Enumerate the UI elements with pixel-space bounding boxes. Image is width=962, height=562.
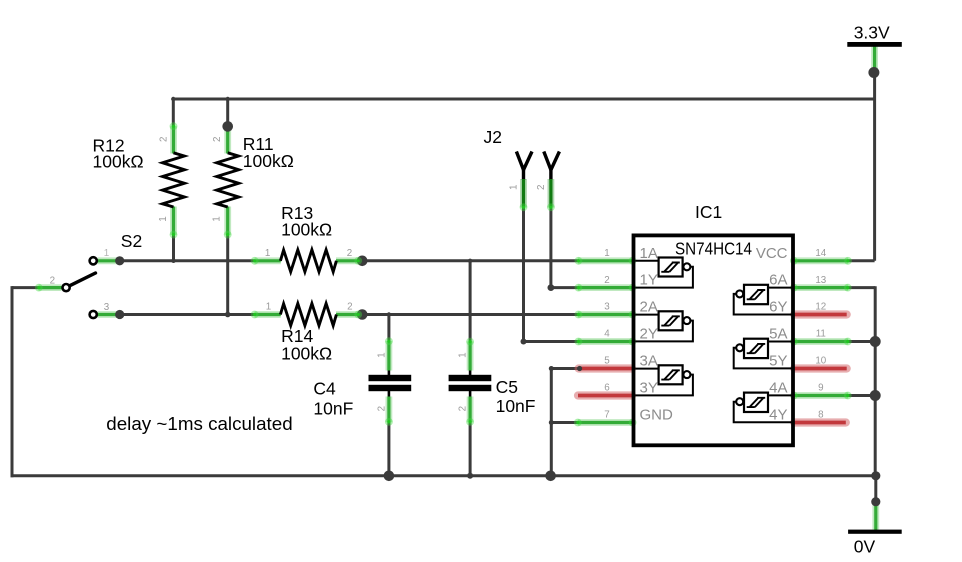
svg-text:4: 4 — [604, 329, 610, 340]
pin glow: C4 pin1 — [385, 337, 393, 345]
pin glow: R12 pin1 — [170, 231, 178, 239]
pin glow: R13 pin1 — [251, 257, 259, 265]
capacitor C4 plates — [369, 375, 412, 391]
wire: GND tie vertical (pins 5,7) — [550, 367, 553, 476]
capacitor C4 pin2 lead stub — [388, 390, 391, 398]
capacitor C5 pin2 lead stub — [469, 390, 472, 398]
wire: S2 pin1 to R13 pin1 (row1) — [120, 259, 255, 262]
connector J2 pin2 leg — [548, 179, 555, 208]
wire: C5 top drop from row1 — [469, 261, 472, 342]
svg-text:1: 1 — [458, 352, 469, 357]
capacitor C5 pin2 leg — [467, 397, 474, 423]
pin glow: IC pin9 — [844, 392, 852, 400]
svg-text:5A: 5A — [769, 326, 787, 343]
svg-text:2: 2 — [212, 137, 223, 142]
switch S2 pin1 leg — [98, 257, 118, 264]
node: 0V symbol junction — [871, 497, 880, 506]
wire: IC pin11 5A stub — [848, 340, 876, 343]
connector J2 pin1 leg — [520, 179, 527, 208]
svg-text:3.3V: 3.3V — [854, 23, 890, 43]
pin glow: R12 pin2 — [170, 122, 178, 130]
wire: J2 pin2 to IC pin2 1Y — [551, 286, 579, 289]
wire: J2 pin1 vertical down — [522, 207, 525, 342]
resistor R12 pin1 leg (bottom) — [170, 207, 177, 235]
resistor R13 pin2 leg — [336, 257, 359, 264]
node: R11 rail tee — [226, 97, 230, 101]
switch S2 pin2 leg — [39, 284, 62, 291]
node: R12 row tee — [171, 259, 175, 263]
svg-text:1: 1 — [604, 248, 609, 259]
svg-text:IC1: IC1 — [695, 202, 722, 222]
svg-text:2: 2 — [347, 248, 352, 259]
svg-text:1Y: 1Y — [640, 272, 658, 289]
switch S2 pin3 terminal circle — [90, 311, 97, 318]
svg-text:10nF: 10nF — [313, 399, 353, 419]
pin glow: R11 pin1 — [224, 231, 232, 239]
IC1 pin 3 2A leg — [578, 311, 632, 318]
svg-text:3: 3 — [604, 302, 610, 313]
IC1 pin 5 3A leg (unrouted red) — [579, 364, 632, 372]
node: C5 drop tee — [468, 259, 472, 263]
node: R13 output junction — [357, 255, 368, 266]
svg-text:3: 3 — [104, 302, 110, 313]
wire: R11 top to rail — [226, 98, 229, 127]
svg-text:0V: 0V — [854, 537, 876, 557]
svg-text:1: 1 — [508, 185, 519, 190]
svg-text:11: 11 — [816, 329, 826, 340]
node: J2 pin2 corner — [548, 284, 555, 291]
svg-text:1: 1 — [266, 302, 271, 313]
IC1 pin 7 GND leg — [578, 419, 632, 426]
pin glow: IC pin11 — [844, 338, 852, 346]
resistor R14 pin1 leg — [255, 311, 281, 318]
wire: J2 pin2 vertical down — [549, 207, 552, 288]
wire: IC pin9 4A stub — [848, 394, 876, 397]
svg-text:13: 13 — [815, 275, 826, 286]
svg-text:100kΩ: 100kΩ — [93, 151, 144, 171]
svg-text:2: 2 — [376, 406, 387, 411]
node: 5A rail junction — [870, 336, 881, 347]
node: S2 pin3 junction — [115, 310, 124, 319]
wire: IC pin13 6A stub — [848, 286, 876, 289]
wire: R13 pin2 to IC pin1 1A — [362, 259, 579, 262]
wire: R12 top to rail — [172, 98, 175, 127]
svg-text:3Y: 3Y — [640, 380, 658, 397]
schmitt inverter gate 2 (2A/2Y) — [635, 311, 693, 341]
node: C5 bottom junction — [467, 473, 473, 479]
svg-text:3A: 3A — [640, 353, 658, 370]
wire: R12 bottom to node row1 — [172, 235, 175, 263]
svg-text:9: 9 — [818, 383, 823, 394]
svg-text:1: 1 — [212, 216, 223, 221]
wire: left vertical down to 0V rail — [11, 286, 14, 477]
IC U1 SN74HC14 body — [634, 235, 794, 445]
pin glow: IC pin13 — [844, 284, 852, 292]
schmitt inverter gate 6 (6A/6Y) — [734, 285, 792, 315]
svg-text:1A: 1A — [640, 245, 658, 262]
pin glow: C5 pin2 — [466, 418, 474, 426]
svg-text:2: 2 — [458, 406, 469, 411]
wire: R11 bottom down to node row3 — [226, 235, 229, 315]
svg-text:delay ~1ms calculated: delay ~1ms calculated — [106, 413, 292, 434]
wire: top 3.3V rail horizontal — [173, 98, 874, 101]
svg-text:GND: GND — [640, 407, 674, 424]
pin glow: C4 pin2 — [385, 418, 393, 426]
node: GND tie top corner — [549, 366, 554, 371]
IC1 pin 6 3Y leg (unrouted red) — [578, 391, 632, 399]
pin glow: S2 pin2 — [35, 284, 43, 292]
svg-text:10: 10 — [815, 356, 826, 367]
wire: 0V symbol vertical — [874, 476, 877, 502]
svg-text:6A: 6A — [769, 272, 787, 289]
IC1 pin 14 VCC leg — [794, 257, 848, 264]
svg-text:1: 1 — [104, 248, 109, 259]
resistor R11 pin2 leg (top) — [224, 127, 231, 154]
schmitt inverter gate 3 (3A/3Y) — [635, 365, 693, 395]
pin glow: IC pin3 — [575, 311, 583, 319]
IC1 pin 11 5A leg — [794, 338, 848, 345]
resistor R12 pin2 leg (top) — [170, 126, 177, 153]
wire: VCC pin14 stub — [848, 259, 874, 262]
svg-text:C4: C4 — [313, 379, 336, 399]
node: R11 row3 junction — [225, 312, 231, 318]
svg-text:7: 7 — [604, 410, 609, 421]
svg-text:12: 12 — [815, 302, 826, 313]
IC1 pin 12 6Y leg (unrouted red) — [794, 310, 847, 318]
capacitor C5 pin1 leg — [467, 341, 474, 370]
node: wire end at pin5 — [577, 366, 582, 371]
svg-text:C5: C5 — [496, 377, 518, 397]
switch S2 pin1 terminal circle — [90, 257, 97, 264]
pin glow: C5 pin1 — [466, 338, 474, 346]
wire: right vertical 6A-5A-4A to 0V rail — [874, 286, 877, 476]
resistor R11 body — [217, 153, 239, 207]
svg-text:100kΩ: 100kΩ — [243, 151, 294, 171]
node: GND tie bottom junction — [545, 471, 556, 482]
node: rail left end cap — [171, 97, 175, 101]
pin glow: R13 pin2 — [354, 257, 362, 265]
pin glow: J2 pin2 — [547, 203, 555, 211]
node: 0V rail right junction — [871, 471, 880, 480]
wire: C5 bottom to 0V rail — [469, 422, 472, 476]
svg-text:100kΩ: 100kΩ — [281, 219, 332, 239]
svg-text:4Y: 4Y — [769, 407, 787, 424]
pin glow: R14 pin2 — [354, 311, 362, 319]
switch S2 pin2 terminal circle — [63, 284, 70, 291]
svg-text:SN74HC14: SN74HC14 — [675, 238, 752, 258]
svg-text:2: 2 — [158, 137, 169, 142]
resistor R14 pin2 leg — [336, 311, 359, 318]
pin glow: J2 pin1 — [520, 203, 528, 211]
svg-text:100kΩ: 100kΩ — [281, 343, 332, 363]
wire: R14 pin2 to IC pin3 2A — [362, 313, 579, 316]
svg-text:2: 2 — [347, 302, 352, 313]
resistor R12 body — [163, 153, 185, 207]
svg-text:6: 6 — [604, 383, 610, 394]
switch S2 lever — [70, 273, 96, 286]
svg-text:8: 8 — [818, 410, 824, 421]
switch S2 pin3 leg — [98, 311, 118, 318]
ground symbol 0V bar — [848, 530, 902, 534]
svg-text:2: 2 — [536, 185, 547, 190]
IC1 pin 13 6A leg — [794, 284, 848, 291]
resistor R11 pin1 leg (bottom) — [224, 207, 231, 235]
wire: 3.3V vertical to VCC — [873, 72, 876, 261]
schmitt inverter gate 4 (4A/4Y) — [734, 393, 792, 423]
schmitt inverter gate 5 (5A/5Y) — [734, 339, 792, 369]
svg-text:1: 1 — [376, 352, 387, 357]
power symbol 3.3V leg — [871, 46, 878, 70]
svg-text:6Y: 6Y — [769, 299, 787, 316]
svg-text:14: 14 — [815, 248, 826, 259]
resistor R13 body — [280, 250, 336, 272]
resistor R13 pin1 leg — [255, 257, 281, 264]
svg-text:5: 5 — [604, 356, 610, 367]
node: C4 drop tee — [387, 312, 391, 316]
wire: S2 pin3 to R14 pin1 (row3) — [120, 313, 255, 316]
wire: J2 pin1 to IC pin4 2Y — [524, 340, 580, 343]
node: R11 top junction — [222, 121, 233, 132]
svg-text:VCC: VCC — [756, 245, 788, 262]
pin glow: IC pin4 — [575, 338, 583, 346]
wire: C4 bottom to 0V rail — [387, 422, 390, 476]
power symbol 3.3V bar — [847, 42, 902, 47]
capacitor C5 pin1 lead stub — [469, 369, 472, 376]
IC1 pin 10 5Y leg (unrouted red) — [794, 364, 847, 372]
pin glow: IC pin2 — [575, 284, 583, 292]
capacitor C4 pin1 lead stub — [388, 369, 391, 376]
svg-text:2: 2 — [50, 275, 55, 286]
svg-text:2A: 2A — [640, 299, 658, 316]
wire: bottom 0V rail horizontal — [11, 474, 876, 477]
svg-text:4A: 4A — [769, 380, 787, 397]
wire: S2 pin2 left stub — [12, 286, 39, 289]
svg-text:10nF: 10nF — [496, 396, 536, 416]
schmitt inverter gate 1 (1A/1Y) — [635, 258, 693, 288]
IC1 pin 9 4A leg — [794, 392, 848, 399]
connector J2 pin2 fork — [544, 152, 560, 170]
node: C4 bottom junction — [384, 471, 395, 482]
pin glow: IC pin1 — [575, 257, 583, 265]
resistor R14 body — [280, 304, 336, 326]
node: 3.3V junction — [868, 67, 879, 78]
svg-text:2Y: 2Y — [640, 326, 658, 343]
pin glow: IC pin7 — [574, 419, 582, 427]
svg-text:1: 1 — [265, 248, 270, 259]
capacitor C5 plates — [449, 375, 492, 391]
svg-text:2: 2 — [604, 275, 609, 286]
IC1 pin 4 2Y leg — [578, 338, 632, 345]
capacitor C4 pin1 leg — [385, 341, 392, 371]
IC1 pin 8 4Y leg (unrouted red) — [794, 418, 846, 426]
svg-text:J2: J2 — [484, 127, 502, 147]
svg-text:5Y: 5Y — [769, 353, 787, 370]
IC1 pin 2 1Y leg — [578, 284, 632, 291]
node: S2 pin1 junction — [115, 256, 124, 265]
connector J2 pin1 fork — [516, 152, 532, 170]
wire: C4 top drop from row3 — [387, 315, 390, 342]
node: GND tie pin7 tee — [549, 420, 554, 425]
IC1 pin 1 1A leg — [578, 257, 632, 264]
node: 4A rail junction — [870, 390, 881, 401]
pin glow: R14 pin1 — [251, 311, 259, 319]
wire: GND tie to IC pin7 GND — [551, 421, 577, 424]
node: J2 pin1 corner — [521, 339, 527, 345]
ground symbol 0V leg — [872, 502, 879, 532]
wire: GND tie to IC pin5 3A — [551, 367, 579, 370]
svg-text:S2: S2 — [121, 231, 142, 251]
capacitor C4 pin2 leg — [385, 397, 392, 423]
pin glow: IC pin14 — [844, 257, 852, 265]
node: R14 output junction — [357, 309, 368, 320]
svg-text:1: 1 — [158, 216, 169, 221]
